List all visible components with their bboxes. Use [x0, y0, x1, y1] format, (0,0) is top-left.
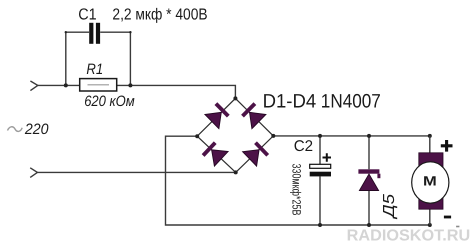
wire C1 branch: [66, 32, 131, 85]
motor M brush top: [419, 153, 443, 168]
label C1: [78, 7, 96, 24]
node bridge left vertex: [195, 134, 199, 138]
diode D4 bottom-right: [243, 143, 268, 166]
node top rail motor corner: [428, 134, 432, 138]
wire bridge left vertex to bottom rail: [166, 136, 430, 225]
svg-text:R1: R1: [86, 61, 103, 78]
capacitor C1 plates: [89, 23, 100, 44]
stray small dash: [456, 226, 459, 228]
wire top AC line: [38, 85, 236, 98]
bridge diamond edges: [197, 98, 273, 172]
wire motor drop bottom: [429, 209, 431, 225]
capacitor C2 bottom plate: [310, 172, 331, 177]
label Д5: [381, 194, 398, 220]
node bottom rail motor corner: [428, 223, 432, 227]
wire bottom AC line to bridge: [37, 171, 235, 173]
node C1 right corner: [129, 31, 131, 33]
label R1 value 620 кОм: [84, 93, 135, 110]
label 1N4007: [321, 91, 381, 113]
motor M brush bottom: [419, 194, 443, 209]
node bottom rail D5 junction: [367, 223, 371, 227]
motor M body: [412, 162, 449, 203]
node bridge top vertex: [233, 96, 237, 100]
svg-text:620 кОм: 620 кОм: [84, 93, 135, 110]
wire C2 branch: [319, 136, 321, 225]
node top rail C2 junction: [318, 134, 322, 138]
node bridge bottom vertex: [234, 170, 238, 174]
wire motor drop top: [429, 136, 431, 153]
svg-text:Д5: Д5: [381, 194, 398, 220]
input terminal bottom: [30, 168, 37, 178]
node top rail D5 junction: [367, 134, 371, 138]
watermark RADIOSKOT.RU: [347, 228, 471, 245]
svg-text:2,2 мкф * 400В: 2,2 мкф * 400В: [112, 7, 207, 24]
label ~ (AC tilde): [8, 127, 23, 132]
node bottom rail C2 junction: [318, 223, 322, 227]
label motor minus: [444, 216, 451, 219]
label C2 value 330мкф*25В: [290, 164, 304, 216]
node junction C1-R1 left: [64, 83, 68, 87]
label motor plus: [441, 140, 453, 152]
svg-text:1N4007: 1N4007: [321, 91, 381, 113]
svg-text:RADIOSKOT.RU: RADIOSKOT.RU: [347, 228, 471, 245]
zener diode D5: [358, 169, 380, 190]
svg-text:C2: C2: [294, 138, 313, 155]
capacitor C2 top plate: [310, 164, 331, 168]
diode D3 bottom-left: [203, 143, 228, 166]
svg-text:D1-D4: D1-D4: [263, 91, 317, 113]
label C1 value 2,2 мкф * 400В: [112, 7, 207, 24]
label C2: [294, 138, 313, 155]
label 220: [24, 121, 49, 138]
svg-text:C1: C1: [78, 7, 96, 24]
resistor R1: [80, 79, 117, 91]
label D1-D4: [263, 91, 317, 113]
svg-text:330мкф*25В: 330мкф*25В: [290, 164, 304, 216]
svg-text:220: 220: [24, 121, 49, 138]
node C1 left corner: [65, 31, 67, 33]
node bridge right vertex: [271, 134, 275, 138]
node junction C1-R1 right: [128, 83, 132, 87]
input terminal top: [30, 81, 37, 91]
wire top rail (bridge right vertex to motor): [273, 135, 430, 137]
diode D1 top-left: [205, 104, 228, 129]
wire D5 branch: [368, 136, 370, 225]
label C2 plus: [323, 153, 332, 162]
diode D2 top-right: [243, 104, 266, 129]
svg-text:М: М: [423, 174, 437, 189]
label R1: [86, 61, 103, 78]
